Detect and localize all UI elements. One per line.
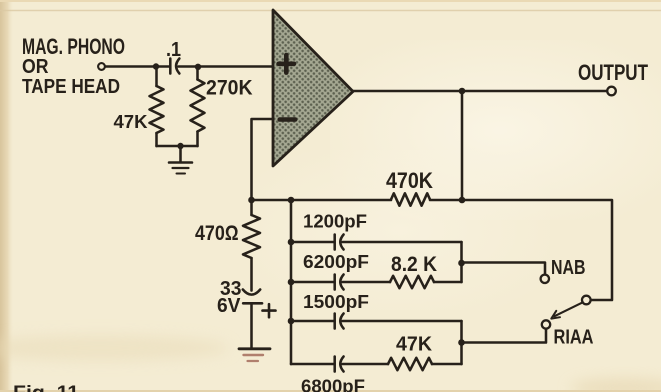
output terminal	[607, 87, 616, 96]
wire bottom join	[157, 145, 198, 148]
node bus b1	[288, 239, 295, 246]
node NAB junction	[458, 260, 465, 267]
branch 4: capacitor 6800pF + resistor 47K	[291, 363, 334, 366]
svg-text:NAB: NAB	[551, 257, 586, 279]
svg-text:6800pF: 6800pF	[301, 376, 365, 392]
wire to RIAA contact	[462, 329, 547, 343]
capacitor C1 .1	[169, 59, 172, 74]
input terminal	[98, 63, 105, 70]
switch arm	[555, 303, 582, 316]
svg-text:OUTPUT: OUTPUT	[578, 60, 648, 85]
svg-text:8.2 K: 8.2 K	[391, 253, 437, 276]
svg-text:6V: 6V	[217, 295, 241, 317]
branch 1: capacitor 1200pF	[291, 241, 334, 244]
svg-text:1500pF: 1500pF	[303, 291, 369, 312]
op-amp U1	[273, 10, 353, 166]
NAB contact	[541, 275, 549, 283]
resistor R3 470K feedback	[291, 199, 391, 202]
svg-text:270K: 270K	[206, 76, 253, 100]
node minus junction	[248, 197, 255, 204]
node bus b3	[288, 318, 295, 325]
branch 2: capacitor 6200pF + resistor 8.2K	[291, 281, 334, 284]
wire input to C1	[105, 65, 169, 68]
ground 2	[239, 347, 270, 350]
resistor R2 270K	[196, 67, 199, 80]
wire feedback vertical	[461, 91, 464, 200]
node feedback top	[459, 197, 466, 204]
resistor 47K input	[155, 67, 158, 87]
RIAA contact	[542, 320, 550, 328]
svg-text:TAPE HEAD: TAPE HEAD	[22, 76, 120, 98]
node RIAA junction	[458, 339, 465, 346]
svg-text:47K: 47K	[114, 112, 148, 132]
svg-text:OR: OR	[22, 55, 49, 78]
svg-text:470K: 470K	[386, 168, 433, 193]
wire node to bus	[252, 199, 292, 202]
wire to NAB contact	[462, 263, 546, 275]
wire to ground	[179, 146, 182, 162]
wire feedback to switch	[462, 200, 612, 300]
node bus top	[288, 197, 295, 204]
wire bus vertical	[290, 200, 293, 364]
svg-text:6200pF: 6200pF	[303, 251, 369, 272]
node ground junction	[177, 143, 183, 149]
node input junction	[153, 63, 159, 69]
node bus b2	[288, 279, 295, 286]
wire C1 to op-amp +	[179, 65, 273, 68]
wire op-amp output	[352, 90, 607, 93]
svg-text:Fig. 11: Fig. 11	[13, 383, 79, 392]
switch pole terminal	[582, 296, 591, 305]
svg-text:47K: 47K	[396, 334, 433, 356]
capacitor C2 33uF 6V	[243, 290, 260, 295]
svg-text:.1: .1	[166, 39, 181, 61]
node output junction	[459, 88, 466, 95]
branch 3: capacitor 1500pF	[291, 320, 334, 323]
svg-text:1200pF: 1200pF	[303, 211, 367, 232]
wire inverting input	[252, 119, 273, 200]
svg-text:RIAA: RIAA	[554, 327, 594, 349]
ground	[169, 161, 192, 164]
wire cap to ground	[250, 303, 253, 347]
node right junction	[195, 64, 201, 70]
resistor R4 470ohm	[250, 200, 253, 215]
svg-text:470Ω: 470Ω	[195, 222, 239, 245]
